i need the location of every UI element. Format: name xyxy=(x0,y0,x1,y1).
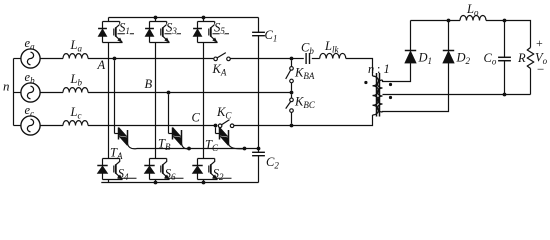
switch S3 (IGBT with antiparallel diode) xyxy=(155,18,157,22)
junction dot bottom bus at S2 xyxy=(202,181,206,185)
ac source e_c xyxy=(21,116,40,135)
capacitor C_o xyxy=(504,21,506,58)
node B junction dot (thyristor T_B tap) xyxy=(167,91,171,95)
diode D1 xyxy=(405,50,416,52)
switch S1 (IGBT with antiparallel diode) xyxy=(108,18,110,22)
wire: output bottom rail xyxy=(505,94,531,96)
switch S5 (IGBT with antiparallel diode) xyxy=(203,18,205,22)
junction dot bottom bus at S6 xyxy=(154,181,158,185)
thyristor T_B xyxy=(168,94,170,133)
thyristor T_C xyxy=(215,127,217,133)
wire: bottom DC bus xyxy=(101,182,258,184)
switch S2 (IGBT with antiparallel diode) xyxy=(198,158,215,160)
wire: secondary top lead to D1 xyxy=(383,63,411,81)
capacitor C2 xyxy=(252,151,265,153)
transformer core xyxy=(376,73,378,117)
node C junction dot xyxy=(214,124,218,128)
junction dot output return at C_o xyxy=(503,93,507,97)
wire: K_C to K_BC branch node xyxy=(234,125,292,127)
junction dot top bus at S5 xyxy=(202,16,206,20)
svg-text:n: n xyxy=(368,62,374,76)
wire: neutral bus n (left vertical) xyxy=(13,59,15,126)
transformer primary polarity dot xyxy=(364,81,367,84)
resistor R (zigzag) xyxy=(527,48,534,69)
capacitor C_b xyxy=(305,53,307,64)
wire: n to e_b xyxy=(14,92,21,94)
transformer secondary winding xyxy=(378,80,383,112)
junction dot rail at DC midpoint xyxy=(257,147,261,151)
inductor L_b xyxy=(63,88,88,93)
node A junction dot (thyristor T_A tap) xyxy=(113,57,117,61)
wire: secondary center tap to output return xyxy=(383,94,505,96)
wire: K_BC to C line xyxy=(291,112,293,123)
wire: n to e_c xyxy=(14,125,21,127)
switch S6 (IGBT with antiparallel diode) xyxy=(150,158,167,160)
wire: phase A line from L_a to switch K_A xyxy=(88,58,213,60)
junction dot top bus at S3 xyxy=(154,16,158,20)
transformer secondary polarity dot (tap) xyxy=(389,96,392,99)
junction dot on C-line below K_BC xyxy=(290,124,294,128)
transformer secondary polarity dot (top) xyxy=(389,83,392,86)
wire: C-line to transformer primary bottom xyxy=(292,115,373,126)
wire: K_BA to B line xyxy=(291,83,293,91)
svg-text:B: B xyxy=(145,77,153,91)
capacitor C1 xyxy=(252,31,265,33)
wire: C1 to C2 (DC midline) xyxy=(258,36,260,153)
switch S4 (IGBT with antiparallel diode) xyxy=(103,158,120,160)
switch K_C xyxy=(218,124,222,128)
switch K_BA (vertical, A to B) xyxy=(291,60,293,66)
wire: K_A to node at C_b branch xyxy=(230,58,291,60)
wire: e_b to L_b xyxy=(40,92,63,94)
junction dot top rail at D2 xyxy=(447,19,451,23)
wire: n to e_a xyxy=(14,58,21,60)
wire: DC link right vertical (top bus to C1) xyxy=(258,18,260,33)
wire: phase C line from L_c to node C xyxy=(88,125,216,127)
wire: e_c to L_c xyxy=(40,125,63,127)
thyristor T_A xyxy=(114,60,116,133)
wire: L_lk to transformer primary top xyxy=(346,59,373,77)
diode D2 xyxy=(443,50,454,52)
wire: secondary bottom lead to D2 xyxy=(383,63,449,112)
wire: phase leg B down to S6 xyxy=(155,93,157,159)
transformer primary winding xyxy=(373,76,379,115)
svg-text:C: C xyxy=(192,111,201,125)
wire: phase leg A down to S4 xyxy=(108,59,110,159)
ac source e_a xyxy=(21,49,40,68)
wire: top DC bus xyxy=(109,17,259,19)
switch K_BC (vertical, B to C) xyxy=(291,94,293,98)
svg-text:+: + xyxy=(536,36,543,50)
inductor L_c xyxy=(63,121,88,126)
junction dot rail at T_C xyxy=(243,147,247,151)
svg-text:−: − xyxy=(537,62,544,77)
inductor L_a xyxy=(63,54,88,59)
junction dot on A-line at K_BA / C_b branch xyxy=(290,57,294,61)
ac source e_b xyxy=(21,83,40,102)
wire: branch node to capacitor C_b xyxy=(292,58,304,60)
svg-text:R: R xyxy=(517,51,526,65)
wire: e_a to L_a xyxy=(40,58,63,60)
inductor L_o xyxy=(460,15,486,20)
svg-text::: : xyxy=(377,62,380,76)
svg-text:1: 1 xyxy=(384,62,390,76)
junction dot output node at C_o xyxy=(503,19,507,23)
svg-text:A: A xyxy=(97,58,106,72)
junction dot rail at T_B xyxy=(187,147,191,151)
wire: L_o to output node and down right side xyxy=(486,21,531,48)
wire: phase leg C down to S2 xyxy=(203,126,205,159)
wire: thyristor common rail to DC midpoint xyxy=(137,148,259,150)
wire: phase B line from L_b to K_BA branch xyxy=(88,92,292,94)
switch K_A xyxy=(214,57,218,61)
wire: C2 to bottom bus xyxy=(258,156,260,183)
inductor L_lk xyxy=(320,53,346,58)
junction dot on B-line below K_BA xyxy=(290,91,294,95)
svg-text:n: n xyxy=(3,79,10,94)
wire: C_b to L_lk xyxy=(312,58,320,60)
wire: output top rail D1 to L_o xyxy=(411,20,461,22)
